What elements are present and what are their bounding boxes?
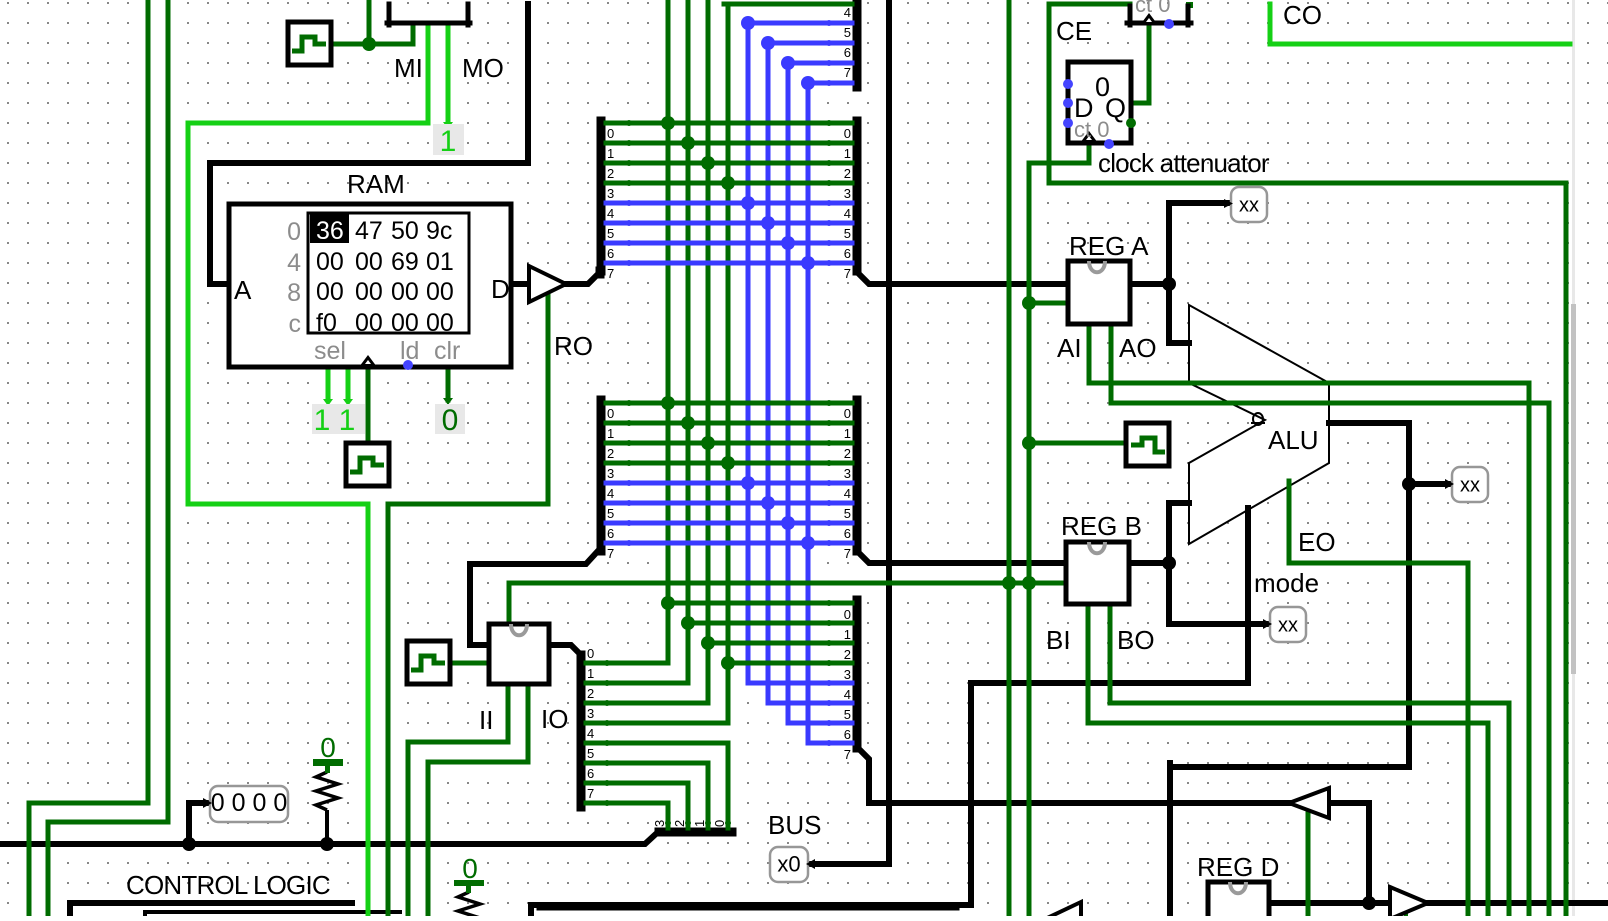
svg-text:xx: xx [1239, 195, 1259, 217]
svg-text:00: 00 [391, 278, 419, 306]
svg-text:1: 1 [607, 146, 614, 161]
svg-text:xx: xx [1460, 475, 1480, 497]
svg-text:REG B: REG B [1061, 511, 1142, 541]
svg-text:REG A: REG A [1069, 231, 1149, 261]
svg-text:0: 0 [287, 218, 301, 246]
svg-text:c: c [289, 310, 302, 338]
svg-text:69: 69 [391, 248, 419, 276]
svg-text:xx: xx [1278, 615, 1298, 637]
svg-text:sel: sel [314, 337, 346, 365]
svg-text:7: 7 [587, 786, 594, 801]
svg-text:5: 5 [607, 506, 614, 521]
svg-text:AI: AI [1057, 333, 1082, 363]
svg-text:mode: mode [1254, 568, 1319, 598]
svg-text:A: A [234, 275, 252, 305]
svg-text:0: 0 [462, 853, 478, 884]
svg-text:RO: RO [554, 331, 593, 361]
svg-text:7: 7 [607, 546, 614, 561]
svg-text:ld: ld [400, 337, 419, 365]
svg-text:00: 00 [316, 248, 344, 276]
svg-text:0: 0 [607, 126, 614, 141]
svg-text:0: 0 [607, 406, 614, 421]
svg-text:5: 5 [844, 25, 851, 40]
svg-text:REG D: REG D [1197, 852, 1279, 882]
svg-text:2: 2 [844, 446, 851, 461]
svg-text:1: 1 [314, 404, 331, 437]
svg-text:00: 00 [355, 309, 383, 337]
svg-text:3: 3 [607, 186, 614, 201]
svg-text:D: D [491, 274, 510, 304]
svg-text:2: 2 [607, 446, 614, 461]
svg-text:1: 1 [440, 125, 457, 158]
svg-text:2: 2 [587, 686, 594, 701]
svg-text:CONTROL LOGIC: CONTROL LOGIC [126, 870, 330, 900]
svg-text:ct 0: ct 0 [1135, 0, 1170, 17]
svg-text:5: 5 [587, 746, 594, 761]
svg-text:II: II [479, 705, 493, 735]
svg-text:2: 2 [607, 166, 614, 181]
svg-text:00: 00 [355, 278, 383, 306]
svg-text:00: 00 [355, 248, 383, 276]
svg-text:MO: MO [462, 53, 504, 83]
svg-text:7: 7 [607, 266, 614, 281]
svg-text:4: 4 [844, 486, 851, 501]
svg-text:1: 1 [844, 627, 851, 642]
svg-text:00: 00 [426, 309, 454, 337]
svg-text:01: 01 [426, 248, 454, 276]
svg-text:3: 3 [587, 706, 594, 721]
svg-text:2: 2 [672, 820, 687, 827]
svg-text:6: 6 [587, 766, 594, 781]
svg-text:0: 0 [844, 126, 851, 141]
svg-text:7: 7 [844, 65, 851, 80]
svg-text:4: 4 [844, 206, 851, 221]
svg-text:1: 1 [339, 404, 356, 437]
svg-text:0: 0 [587, 646, 594, 661]
svg-text:f0: f0 [316, 309, 337, 337]
svg-text:1: 1 [692, 820, 707, 827]
svg-text:BO: BO [1117, 625, 1155, 655]
svg-text:3: 3 [844, 667, 851, 682]
svg-text:CO: CO [1283, 0, 1322, 30]
svg-text:2: 2 [844, 166, 851, 181]
svg-text:0: 0 [442, 404, 459, 437]
svg-text:5: 5 [844, 506, 851, 521]
svg-text:6: 6 [844, 727, 851, 742]
svg-text:5: 5 [607, 226, 614, 241]
svg-text:36: 36 [316, 217, 344, 245]
svg-text:47: 47 [355, 217, 383, 245]
svg-text:6: 6 [844, 45, 851, 60]
svg-text:3: 3 [844, 186, 851, 201]
svg-text:clr: clr [434, 337, 460, 365]
svg-text:EO: EO [1298, 527, 1336, 557]
svg-text:7: 7 [844, 546, 851, 561]
svg-text:4: 4 [287, 249, 301, 277]
svg-text:0: 0 [844, 406, 851, 421]
svg-text:4: 4 [844, 687, 851, 702]
svg-text:0: 0 [844, 607, 851, 622]
svg-text:4: 4 [587, 726, 594, 741]
svg-text:50: 50 [391, 217, 419, 245]
svg-text:6: 6 [844, 526, 851, 541]
svg-text:5: 5 [844, 226, 851, 241]
svg-text:1: 1 [607, 426, 614, 441]
svg-text:1: 1 [844, 426, 851, 441]
svg-text:MI: MI [394, 53, 423, 83]
svg-text:00: 00 [316, 278, 344, 306]
svg-text:7: 7 [844, 266, 851, 281]
svg-text:3: 3 [607, 466, 614, 481]
svg-text:8: 8 [287, 279, 301, 307]
svg-text:4: 4 [844, 5, 851, 20]
svg-text:2: 2 [844, 647, 851, 662]
svg-text:ALU: ALU [1268, 425, 1319, 455]
svg-text:CE: CE [1056, 16, 1092, 46]
svg-text:7: 7 [844, 747, 851, 762]
svg-text:6: 6 [844, 246, 851, 261]
svg-text:x0: x0 [777, 852, 800, 877]
svg-text:0 0 0 0: 0 0 0 0 [211, 789, 287, 817]
svg-text:AO: AO [1119, 333, 1157, 363]
svg-text:BI: BI [1046, 625, 1071, 655]
svg-text:1: 1 [844, 146, 851, 161]
svg-text:4: 4 [607, 486, 614, 501]
svg-text:3: 3 [652, 820, 667, 827]
svg-text:5: 5 [844, 707, 851, 722]
svg-text:ct 0: ct 0 [1074, 117, 1109, 142]
svg-text:4: 4 [607, 206, 614, 221]
svg-text:BUS: BUS [768, 810, 821, 840]
svg-text:clock attenuator: clock attenuator [1098, 148, 1270, 178]
svg-text:9c: 9c [426, 217, 452, 245]
svg-text:00: 00 [426, 278, 454, 306]
svg-text:0: 0 [712, 820, 727, 827]
svg-text:6: 6 [607, 246, 614, 261]
svg-text:1: 1 [587, 666, 594, 681]
svg-text:00: 00 [391, 309, 419, 337]
svg-text:IO: IO [541, 704, 568, 734]
svg-text:3: 3 [844, 466, 851, 481]
svg-text:0: 0 [320, 732, 336, 763]
svg-text:RAM: RAM [347, 169, 405, 199]
svg-text:6: 6 [607, 526, 614, 541]
